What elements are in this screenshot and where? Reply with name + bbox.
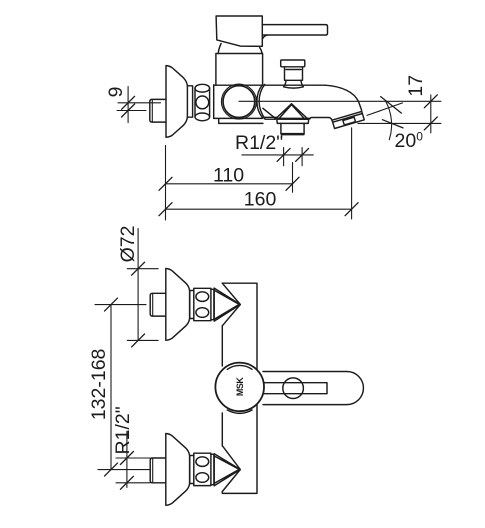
ext line outlet left (283, 148, 285, 166)
svg-text:R1/2": R1/2" (235, 132, 283, 154)
svg-text:200: 200 (395, 129, 424, 152)
lever-cap fillet (263, 35, 268, 39)
tick R12 left (277, 148, 290, 161)
diverter cone right slopes (292, 104, 308, 119)
s-union top band right (211, 289, 214, 319)
tick R12b bottom (120, 476, 133, 489)
inlet cone bottom (214, 454, 240, 486)
shower outlet stem (281, 123, 304, 133)
ext line d72 bottom (127, 339, 158, 341)
dim line 17 (430, 95, 432, 133)
ext line outlet right (301, 148, 303, 166)
tick d72 top (132, 262, 145, 275)
spout nose curve (325, 85, 362, 111)
handle neck collar right (260, 47, 263, 53)
svg-text:160: 160 (244, 189, 277, 211)
dim line d72 (137, 229, 139, 341)
s-union top ring (195, 84, 210, 92)
knob collar arc (227, 410, 252, 413)
tick 110 left (159, 177, 172, 190)
ext line outlet center (292, 163, 294, 193)
tick 132-168 bottom (105, 463, 118, 476)
ext line aerator (351, 128, 353, 219)
tick R12 right (296, 148, 309, 161)
dim 9 ext line upper (118, 102, 161, 104)
svg-text:110: 110 (213, 165, 244, 187)
tick 160 left (159, 203, 172, 216)
diverter knob base flare (284, 80, 304, 88)
centerline through spout (239, 100, 441, 102)
20 degree slanted line (367, 103, 403, 116)
svg-text:9: 9 (105, 87, 127, 98)
tick 110 right (286, 177, 299, 190)
ext line R12b top (116, 457, 150, 459)
ext line R12b bottom (116, 482, 150, 484)
s-union bottom ellipse 2 (196, 473, 209, 483)
valve body left edge (213, 85, 215, 119)
wall nipple inner line (151, 99, 153, 122)
valve cap circle outer (221, 84, 256, 119)
nipple top inner line (152, 293, 154, 316)
svg-text:Ø72: Ø72 (117, 226, 139, 263)
s-union top (front) (194, 288, 211, 320)
diverter knob cap (281, 60, 305, 67)
knob circle (front) (215, 363, 264, 412)
tick R12b top (120, 452, 133, 465)
spout underside left of diverter (265, 116, 277, 118)
tick 17 bottom (424, 117, 437, 130)
tick d72 bottom (132, 334, 145, 347)
tick 9 lower (122, 104, 135, 117)
inlet V notch bottom (222, 446, 240, 492)
s-union top ellipse 2 (196, 308, 209, 318)
inlet cone top (214, 288, 240, 321)
s-union bottom ellipse 1 (196, 457, 209, 467)
s-union bottom band right (211, 454, 214, 484)
svg-text:R1/2": R1/2" (112, 406, 134, 454)
diverter cone base band (265, 118, 310, 123)
dim 9 vertical line (127, 87, 129, 123)
lever screw circle (283, 378, 304, 399)
inlet V notch top (222, 283, 240, 326)
nipple bottom inner line (152, 458, 154, 483)
handle neck collar (218, 44, 221, 54)
body / spout top edge (214, 84, 325, 86)
dim line 110 (166, 183, 293, 185)
20 degree arc (386, 102, 392, 140)
body base plate (214, 118, 263, 123)
arc tick bottom (382, 120, 403, 128)
spout root curve (257, 84, 265, 119)
diverter knob stem (285, 67, 303, 81)
s-union top band left (190, 291, 194, 319)
nipple bottom (front) (150, 458, 166, 483)
dim line 160 (166, 208, 352, 210)
knob face chamfer arc (227, 365, 252, 369)
tick 17 top (424, 95, 437, 108)
spout underside right of cone (310, 118, 332, 121)
s-union bottom band left (190, 456, 194, 484)
s-union nut circle (196, 96, 209, 109)
handle cap (216, 16, 262, 46)
escutcheon top (front) (166, 269, 190, 341)
cartridge housing (216, 54, 263, 86)
svg-text:132-168: 132-168 (88, 349, 110, 421)
svg-text:17: 17 (405, 75, 427, 97)
diverter cone left slopes (276, 104, 292, 119)
escutcheon bottom (front) (166, 434, 190, 506)
lever capsule (front) (263, 372, 363, 405)
faucet body bar (222, 283, 257, 493)
tick 132-168 top (105, 298, 118, 311)
ext line 132-168 bottom (98, 469, 150, 471)
lever inner rect (263, 383, 327, 394)
escutcheon bell (166, 66, 187, 138)
aerator face double line (333, 114, 363, 123)
arc tick top (381, 97, 402, 114)
diverter cone outer slope (263, 108, 275, 118)
ext line 132-168 top (95, 304, 146, 306)
shower outlet stem bottom thick (282, 134, 304, 136)
valve cap circle inner (223, 86, 255, 118)
aerator body (332, 111, 364, 128)
wall nipple (side view) (150, 99, 166, 122)
s-union sides (195, 88, 210, 117)
dim line R1/2 bottom view (126, 431, 128, 487)
tick 160 right (345, 203, 358, 216)
aerator screen (343, 117, 356, 125)
nipple top (front) (150, 293, 166, 316)
s-union bottom ring (195, 113, 210, 121)
aerator level line (358, 122, 441, 124)
s-union top ellipse 1 (196, 292, 209, 302)
tick 9 upper (122, 96, 135, 109)
dim 9 ext line lower (117, 110, 146, 112)
handle lever (262, 25, 327, 35)
ext line d72 top (127, 268, 158, 270)
svg-text:MSK: MSK (235, 377, 245, 397)
escutcheon neck band (187, 86, 192, 117)
dim line 132-168 (110, 305, 112, 470)
left extension line (165, 146, 167, 221)
s-union bottom (front) (194, 453, 211, 485)
dim line R1/2 top (242, 154, 313, 156)
